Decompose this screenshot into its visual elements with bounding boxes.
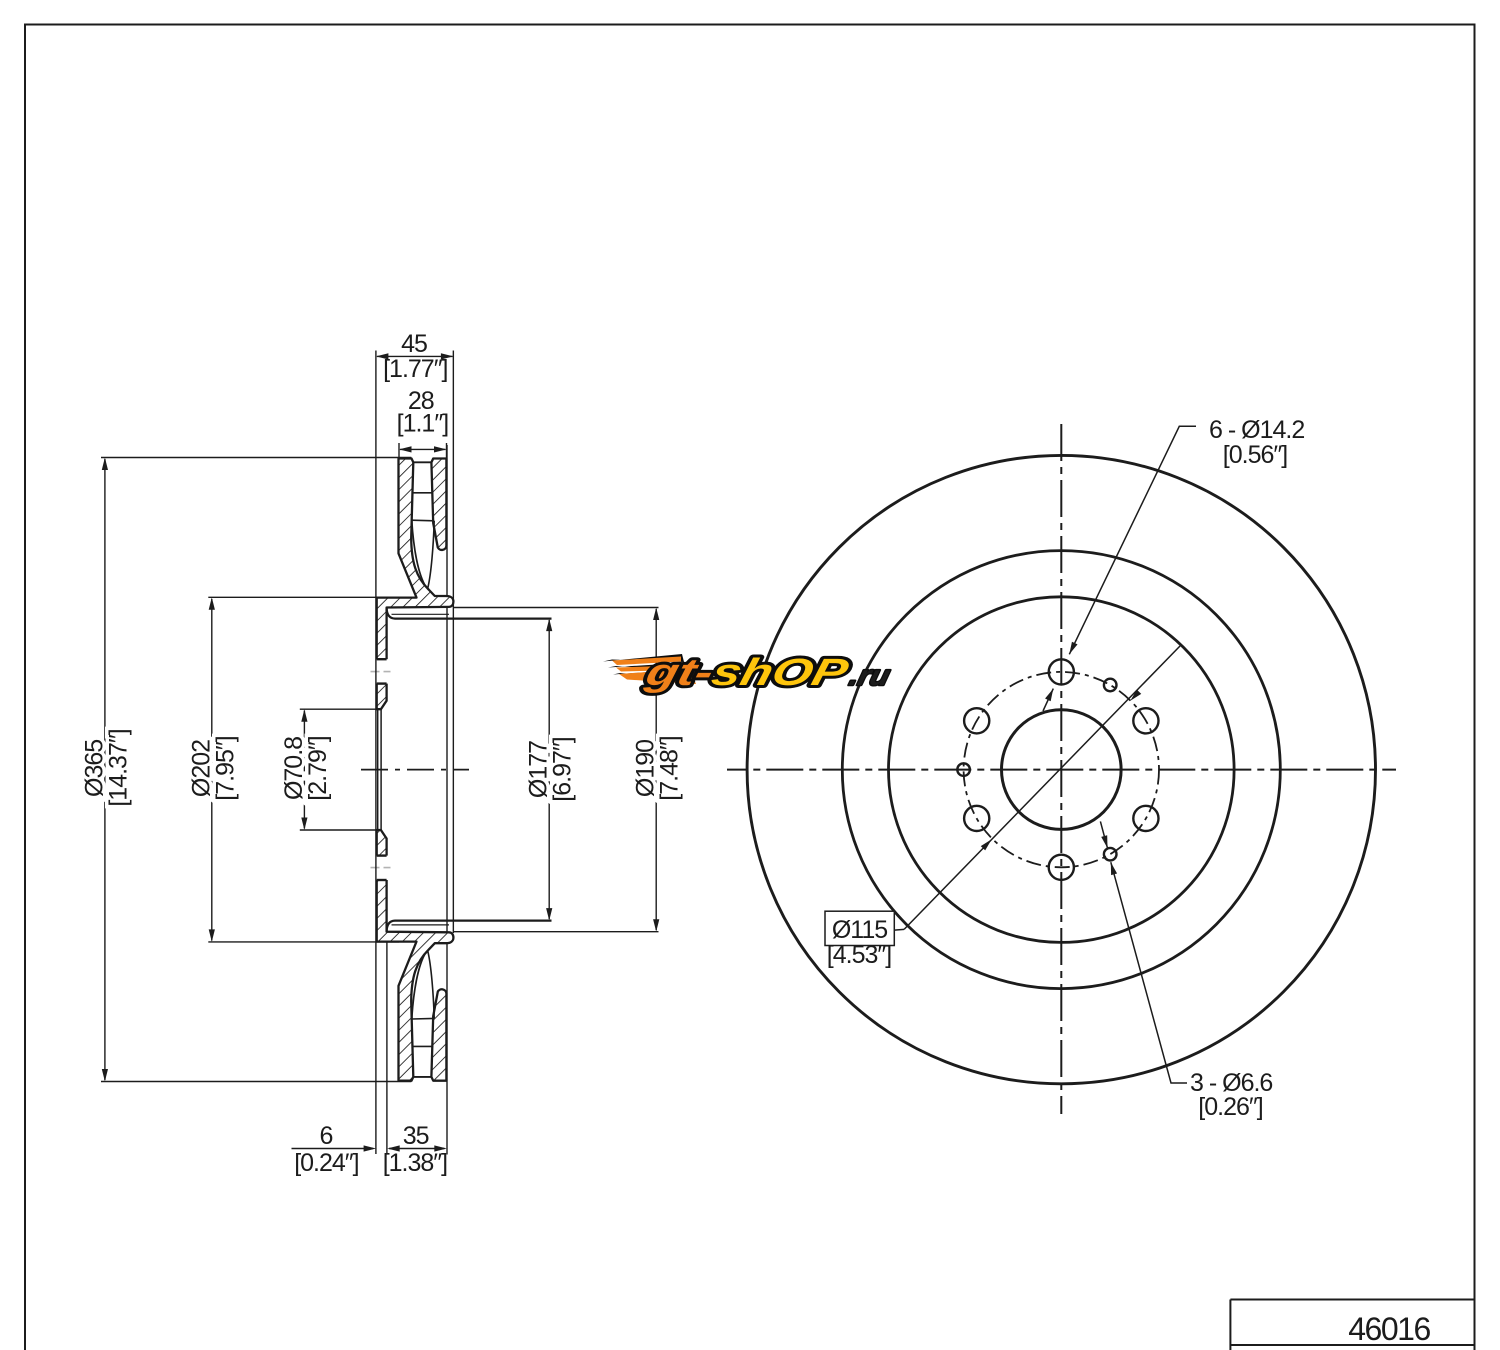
arrowhead D202 bottom — [209, 929, 215, 942]
svg-text:[7.95″]: [7.95″] — [211, 736, 239, 800]
svg-text:45: 45 — [401, 330, 427, 358]
svg-text:[6.97″]: [6.97″] — [549, 737, 577, 801]
projected drum rim edges — [447, 351, 453, 1155]
bolt circle D115 (dash-dot) — [964, 672, 1159, 867]
dimension line D202 — [211, 599, 213, 941]
svg-text:6: 6 — [320, 1122, 333, 1150]
drum braking surface edge D177 bottom — [387, 921, 552, 932]
arrowhead 45 left — [376, 353, 389, 359]
bolt hole void in wall (bottom) — [375, 856, 388, 880]
bolt hole top — [1049, 659, 1074, 684]
projected bore edges through hub opening — [378, 709, 381, 830]
D115 dimension diagonal — [894, 928, 904, 931]
section centerline — [361, 769, 469, 771]
svg-text:[1.77″]: [1.77″] — [383, 355, 447, 383]
arrowhead 35 left — [387, 1145, 400, 1151]
extension line D202 bottom — [208, 941, 399, 943]
arrowhead 28 right — [434, 446, 447, 452]
arrowhead D190 bottom — [653, 919, 659, 932]
arrowhead 6 — [364, 1145, 377, 1151]
vertical centerline — [1060, 424, 1062, 1114]
dimension line 6 — [292, 1148, 374, 1150]
bolt hole void in wall (top) — [375, 659, 388, 683]
friction surface inner circle — [842, 551, 1280, 989]
logo text — [640, 652, 895, 694]
center bore D70.8 — [1002, 710, 1122, 830]
svg-text:[4.53″]: [4.53″] — [827, 941, 891, 969]
extension line 28 right — [446, 443, 448, 459]
svg-text:[1.38″]: [1.38″] — [383, 1149, 447, 1177]
bolt hole upper-left — [964, 708, 989, 733]
extension line 6 right — [386, 941, 388, 1154]
svg-text:.ru: .ru — [846, 660, 893, 692]
disc section bottom half (mirror) — [377, 830, 454, 1081]
bolt hole lower-right — [1133, 806, 1158, 831]
arrowhead D190 top — [653, 608, 659, 621]
svg-text:[14.37″]: [14.37″] — [104, 729, 132, 806]
svg-text:46016: 46016 — [1348, 1311, 1430, 1347]
hat outer circle D202 — [889, 597, 1235, 943]
dimension line 35 — [389, 1148, 445, 1150]
arrowhead D70.8 bottom — [301, 818, 307, 831]
arrowhead D365 top — [102, 458, 108, 471]
extension line 28 left — [398, 443, 400, 459]
svg-text:6 - Ø14.2: 6 - Ø14.2 — [1209, 416, 1304, 444]
svg-text:gt-shOP: gt-shOP — [640, 652, 852, 694]
drum groove edge bottom — [392, 924, 450, 926]
extension line 45/6 left — [375, 351, 377, 1155]
dimension line 45 — [377, 355, 453, 357]
extension line D190 bottom — [454, 931, 659, 933]
dimension line D177 — [548, 620, 550, 919]
arrowhead D202 top — [209, 597, 215, 610]
extension line D190 top — [454, 607, 659, 609]
speed streaks — [603, 654, 684, 662]
arrowhead 45 right — [441, 353, 454, 359]
dimension line D365 — [104, 459, 106, 1080]
small hole left — [957, 763, 970, 776]
bolt hole lower-left — [964, 806, 989, 831]
svg-text:[1.1″]: [1.1″] — [397, 410, 449, 438]
dimension line 28 — [400, 448, 446, 450]
svg-text:[7.48″]: [7.48″] — [656, 736, 684, 800]
small hole lower-right — [1104, 848, 1117, 861]
drum braking surface edge D177 top — [387, 608, 552, 619]
arrowhead 35 right — [434, 1145, 447, 1151]
extension line D202 top — [208, 596, 399, 598]
extension line D365 top — [101, 457, 411, 459]
drum groove edge top — [392, 613, 450, 615]
arrowhead D365 bottom — [102, 1069, 108, 1082]
leader 3-D6.6 — [1100, 821, 1187, 1083]
disc outer circle D365 — [747, 455, 1375, 1083]
dimension line D70.8 — [303, 711, 305, 829]
extension line D70.8 bottom — [300, 829, 377, 831]
small hole upper-right — [1104, 679, 1117, 692]
arrowhead 28 left — [399, 446, 412, 452]
svg-text:[0.56″]: [0.56″] — [1223, 441, 1287, 469]
svg-text:[0.24″]: [0.24″] — [294, 1149, 358, 1177]
arrowhead D177 top — [546, 619, 552, 632]
extension line D70.8 top — [300, 708, 377, 710]
svg-text:35: 35 — [403, 1122, 429, 1150]
horizontal centerline — [727, 769, 1396, 771]
arrowhead D177 bottom — [546, 908, 552, 921]
arrowhead D70.8 top — [301, 709, 307, 722]
leader 6-D14.2 — [1043, 426, 1196, 711]
bolt hole bottom — [1049, 855, 1074, 880]
svg-text:[0.26″]: [0.26″] — [1198, 1093, 1262, 1121]
extension line D365 bottom — [101, 1081, 411, 1083]
svg-text:Ø115: Ø115 — [832, 916, 887, 944]
dimension line D190 — [655, 609, 657, 930]
label D115 box — [825, 911, 894, 945]
svg-text:[2.79″]: [2.79″] — [304, 736, 332, 800]
bolt hole upper-right — [1133, 708, 1158, 733]
